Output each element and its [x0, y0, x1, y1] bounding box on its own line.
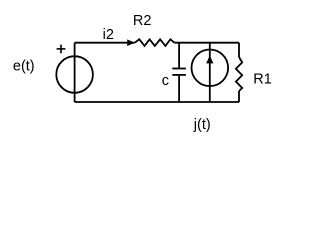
wire: top-left horizontal from source to arrow: [75, 42, 135, 44]
capacitor C bottom plate: [172, 74, 186, 76]
capacitor C top plate: [172, 68, 186, 70]
capacitor c bottom lead wire: [178, 76, 180, 102]
resistor R1 zigzag body: [236, 57, 242, 91]
plus polarity sign of voltage source: [57, 45, 66, 54]
current source arrow (points up): [206, 55, 213, 63]
current source j(t) circle: [192, 50, 229, 87]
current arrow i2 on top wire: [127, 39, 135, 46]
current source j(t) vertical wire branch: [209, 43, 211, 102]
svg-text:i2: i2: [103, 27, 114, 43]
resistor R2 zigzag body: [135, 39, 175, 46]
svg-text:R2: R2: [133, 13, 152, 29]
svg-text:e(t): e(t): [13, 58, 35, 74]
voltage source e(t) circle: [56, 56, 93, 93]
svg-text:R1: R1: [253, 71, 272, 87]
wire: left vertical branch through voltage source: [74, 43, 76, 102]
wire: bottom horizontal: [75, 101, 239, 103]
wire: top-right horizontal after resistor to right corner: [174, 42, 239, 44]
capacitor c top lead wire: [178, 43, 180, 68]
wire: right vertical top segment: [238, 43, 240, 57]
svg-text:j(t): j(t): [193, 117, 211, 133]
wire: right vertical bottom segment: [238, 91, 240, 102]
svg-text:c: c: [162, 73, 169, 89]
